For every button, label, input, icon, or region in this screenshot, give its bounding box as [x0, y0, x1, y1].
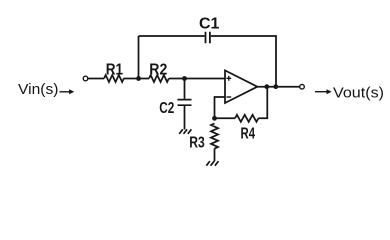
ground below R3	[206, 161, 218, 166]
arrow before Vout(s)	[315, 91, 328, 93]
svg-text:C1: C1	[199, 16, 220, 33]
node junction output-R4	[264, 84, 269, 89]
wire C2 to ground	[184, 106, 186, 130]
wire Vin terminal to R1	[88, 78, 104, 80]
op-amp - input symbol	[226, 96, 231, 98]
svg-text:R1: R1	[106, 62, 123, 79]
wire R3 to ground	[214, 149, 216, 162]
op-amp U1	[225, 70, 257, 103]
svg-text:R2: R2	[149, 62, 167, 79]
wire C1 to right corner and down to output node	[211, 36, 276, 87]
svg-text:Vout(s): Vout(s)	[333, 84, 384, 101]
svg-text:R3: R3	[189, 135, 205, 152]
wire R1 to R2	[124, 78, 150, 80]
resistor R1	[104, 75, 124, 82]
node junction R1-R2	[136, 76, 141, 81]
svg-text:C2: C2	[159, 100, 174, 117]
wire junction up to C1 branch	[138, 36, 140, 79]
wire junction down to C2	[184, 79, 186, 99]
wire op-amp - input down to feedback node	[215, 97, 226, 118]
resistor R3	[211, 124, 218, 149]
node junction output-C1	[273, 84, 278, 89]
capacitor C1	[206, 32, 210, 44]
node junction R2-C2	[182, 76, 187, 81]
svg-text:R4: R4	[241, 126, 256, 143]
wire top left to C1	[139, 35, 205, 37]
resistor R2	[149, 75, 169, 82]
capacitor C2	[178, 100, 192, 106]
wire junction to R4	[215, 117, 236, 119]
arrow after Vin(s)	[60, 91, 71, 93]
wire op-amp output to Vout terminal	[257, 86, 299, 88]
node Vout terminal	[300, 84, 305, 89]
node Vin terminal	[83, 76, 88, 81]
ground below C2	[179, 129, 191, 134]
resistor R4	[235, 115, 258, 122]
svg-text:Vin(s): Vin(s)	[18, 81, 59, 98]
node feedback junction R3-R4	[212, 116, 217, 121]
wire R4 to output node	[258, 87, 267, 119]
op-amp + input symbol	[226, 76, 231, 81]
wire R2 to op-amp + input	[169, 78, 225, 80]
